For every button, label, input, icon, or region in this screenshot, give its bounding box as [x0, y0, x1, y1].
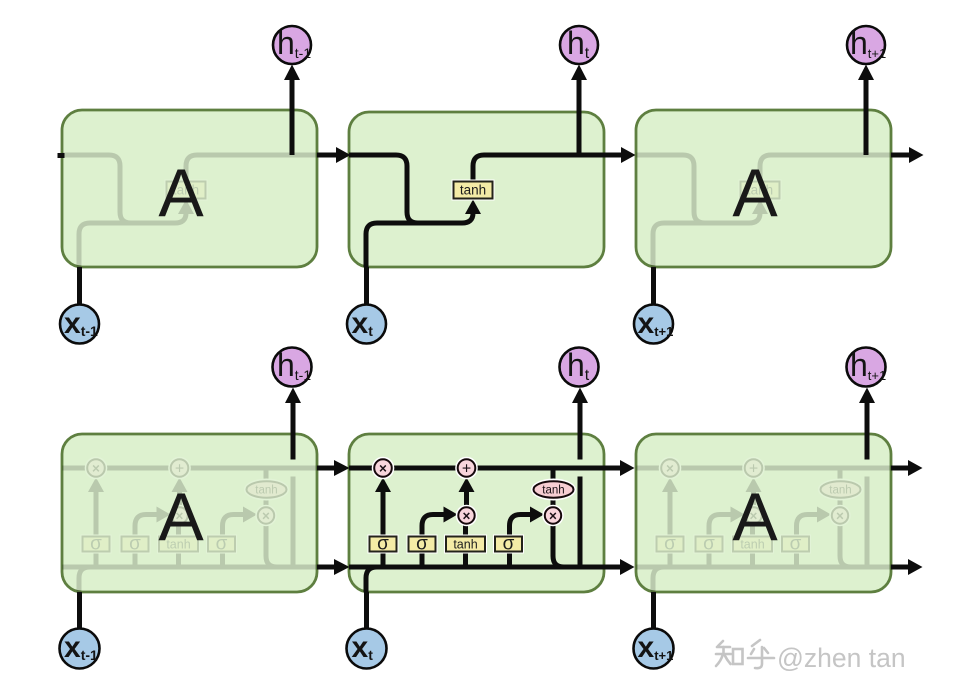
svg-text:A: A — [732, 479, 778, 555]
svg-text:A: A — [158, 479, 204, 555]
svg-text:A: A — [158, 155, 204, 231]
svg-text:@zhen tan: @zhen tan — [777, 643, 906, 673]
svg-text:A: A — [732, 155, 778, 231]
